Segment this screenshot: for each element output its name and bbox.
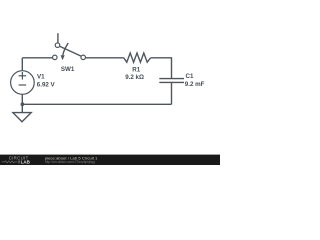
- wire resistor to top-right corner down to C1: [151, 58, 172, 78]
- svg-text:SW1: SW1: [61, 66, 75, 73]
- wire bottom run: [22, 103, 171, 105]
- wire V1 bottom to junction: [21, 94, 23, 104]
- watermark bar: [0, 155, 220, 165]
- svg-text:6.92 V: 6.92 V: [37, 82, 56, 89]
- switch SW1: [53, 33, 86, 60]
- junction node: [21, 102, 25, 106]
- wire C1 bottom to bottom-right corner: [171, 83, 173, 104]
- svg-text:9.2 kΩ: 9.2 kΩ: [125, 74, 144, 81]
- svg-text:C1: C1: [186, 73, 194, 80]
- wire V1 top to top-left corner: [21, 58, 23, 71]
- svg-text:R1: R1: [132, 67, 140, 74]
- svg-text:V1: V1: [37, 73, 45, 80]
- wire junction to ground: [21, 104, 23, 112]
- voltage source V1: [11, 71, 35, 95]
- labels: [37, 66, 205, 89]
- capacitor C1 plates: [159, 79, 184, 83]
- wire switch right terminal to resistor: [85, 57, 123, 59]
- svg-text:LAB: LAB: [21, 160, 31, 165]
- svg-text:http://circuitlab.com/c7Sxep6p: http://circuitlab.com/c7Sxep6pkjbqg: [45, 160, 95, 164]
- CircuitLab logo: [2, 155, 31, 164]
- wire top run to switch left terminal: [22, 57, 52, 59]
- svg-text:9.2 mF: 9.2 mF: [185, 81, 205, 88]
- ground: [13, 113, 31, 122]
- resistor R1: [124, 53, 151, 62]
